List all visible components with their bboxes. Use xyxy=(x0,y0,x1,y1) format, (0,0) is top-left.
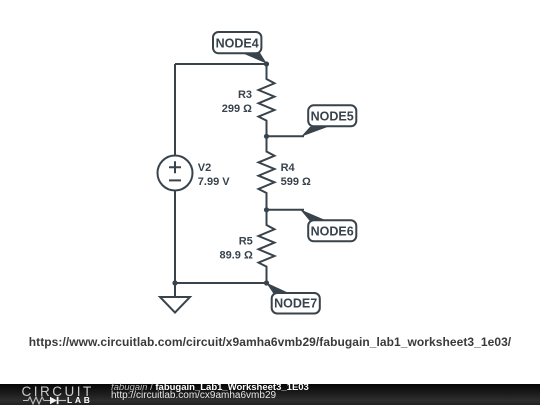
svg-text:NODE7: NODE7 xyxy=(274,297,317,311)
svg-text:R5: R5 xyxy=(239,236,253,248)
svg-text:V2: V2 xyxy=(198,162,211,174)
svg-text:599 Ω: 599 Ω xyxy=(281,176,311,188)
svg-text:R4: R4 xyxy=(281,162,296,174)
svg-text:NODE6: NODE6 xyxy=(311,224,354,238)
svg-text:NODE4: NODE4 xyxy=(216,36,259,50)
svg-text:NODE5: NODE5 xyxy=(311,109,354,123)
svg-text:89.9 Ω: 89.9 Ω xyxy=(220,249,253,261)
svg-text:7.99 V: 7.99 V xyxy=(198,176,230,188)
svg-text:R3: R3 xyxy=(238,89,252,101)
svg-text:299 Ω: 299 Ω xyxy=(222,103,252,115)
